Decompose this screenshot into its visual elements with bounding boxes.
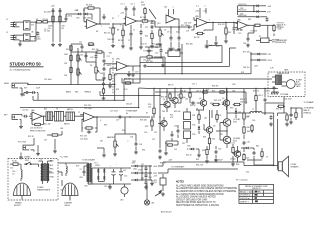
wire psu rails xyxy=(88,168,131,184)
node nA xyxy=(99,23,100,24)
diode D12 xyxy=(255,16,260,19)
node pr7 xyxy=(255,88,256,89)
svg-text:T1-2 GRN: T1-2 GRN xyxy=(60,157,68,159)
svg-text:SEND: SEND xyxy=(4,83,10,85)
wire J4 w2 xyxy=(20,119,22,124)
resistor R28 xyxy=(151,118,153,128)
svg-text:C37: C37 xyxy=(154,132,157,134)
svg-text:CR4: CR4 xyxy=(84,186,88,188)
wire pa feed H xyxy=(139,88,150,108)
svg-text:C67 .1: C67 .1 xyxy=(192,84,197,86)
capacitor Crow2 xyxy=(145,181,148,185)
svg-text:CR1: CR1 xyxy=(192,115,195,117)
wire C29 w xyxy=(135,134,137,150)
svg-text:R45: R45 xyxy=(256,146,259,148)
capacitor C20b xyxy=(148,49,151,53)
relay K1 xyxy=(256,38,272,43)
wire d15 w xyxy=(187,149,199,153)
wire rows g2 xyxy=(147,180,152,196)
svg-text:C30: C30 xyxy=(144,132,147,134)
resistor R16 xyxy=(109,73,111,81)
jack J5 foot xyxy=(23,145,31,150)
svg-text:1: 1 xyxy=(143,24,144,26)
wire pwrB xyxy=(126,12,134,16)
svg-text:(SHIELD): (SHIELD) xyxy=(304,113,312,115)
ground G36b xyxy=(150,182,154,186)
svg-text:R39: R39 xyxy=(202,150,205,152)
svg-text:C57 .1: C57 .1 xyxy=(196,91,201,93)
wire outF2 xyxy=(154,57,165,75)
resistor R61 xyxy=(243,153,245,161)
svg-text:1: 1 xyxy=(101,26,102,28)
resistor R16b xyxy=(102,88,104,95)
node nrs1 xyxy=(250,53,251,54)
wire row1 w xyxy=(131,173,152,180)
capacitor Crow0 xyxy=(145,167,148,171)
title underline xyxy=(10,66,44,68)
svg-text:SW: SW xyxy=(31,25,34,27)
svg-text:C24 47pF: C24 47pF xyxy=(84,108,93,110)
jack J3 send xyxy=(12,83,20,88)
wire rd w3 xyxy=(149,58,163,63)
ground G25 xyxy=(113,152,117,156)
wire fbF2 xyxy=(122,66,140,83)
svg-text:R21 10K: R21 10K xyxy=(44,124,51,126)
op-amp U5A xyxy=(166,9,179,23)
svg-text:C27 10uF: C27 10uF xyxy=(110,111,119,113)
svg-text:C27: C27 xyxy=(116,120,119,122)
resistor R86 xyxy=(251,125,253,132)
wire fbH xyxy=(82,117,97,132)
svg-text:220: 220 xyxy=(174,149,177,151)
svg-text:R6: R6 xyxy=(96,31,98,33)
wire vC3 xyxy=(233,23,235,35)
svg-text:Q10: Q10 xyxy=(157,23,160,25)
svg-text:SUB PHASER O/L PATENT NO. 4,30: SUB PHASER O/L PATENT NO. 4,302,691 xyxy=(176,204,220,207)
svg-text:ALL RESISTORS ARE 1/4W UNLESS: ALL RESISTORS ARE 1/4W UNLESS NOTED OTHE… xyxy=(176,187,237,190)
svg-text:R10: R10 xyxy=(228,32,231,34)
svg-text:R9 22K: R9 22K xyxy=(194,37,201,39)
svg-text:R47: R47 xyxy=(165,143,168,145)
svg-text:R18 47K: R18 47K xyxy=(124,79,132,81)
svg-text:C4 47p: C4 47p xyxy=(67,15,73,17)
svg-text:5: 5 xyxy=(196,27,197,29)
wire R30 w xyxy=(153,89,155,119)
wire lr w3 xyxy=(254,148,262,165)
wire outA xyxy=(100,23,110,25)
wire vcol2 xyxy=(59,8,61,42)
svg-text:R59: R59 xyxy=(76,166,79,168)
regulator VR1 xyxy=(121,184,128,197)
resistor R83 xyxy=(198,114,200,121)
node nH xyxy=(96,116,97,117)
svg-text:BASS: BASS xyxy=(66,91,72,94)
diode Drow0 xyxy=(133,165,139,168)
node nbusH xyxy=(138,107,139,108)
wire to stage1 xyxy=(48,21,53,23)
ground G37 xyxy=(161,192,165,196)
wire row0 w xyxy=(131,166,152,173)
ground G32 xyxy=(269,122,273,126)
svg-text:J9: J9 xyxy=(266,157,268,159)
resistor R77 xyxy=(295,112,297,119)
svg-text:Q3: Q3 xyxy=(150,121,152,123)
svg-text:T1 SECONDARY: T1 SECONDARY xyxy=(82,159,96,162)
svg-text:R48 100: R48 100 xyxy=(247,131,253,133)
jack switch box B1 xyxy=(24,21,31,30)
diode Drow2 xyxy=(133,179,139,182)
wire outC xyxy=(208,22,238,24)
svg-text:CR2: CR2 xyxy=(83,18,87,20)
ground G7 xyxy=(111,44,115,48)
capacitor C32 xyxy=(191,102,195,105)
diode D14 xyxy=(256,59,261,62)
svg-text:R75 10K: R75 10K xyxy=(243,52,250,54)
wire p2 w xyxy=(62,180,70,201)
ground G15 xyxy=(214,41,218,45)
capacitor C13 xyxy=(25,91,29,94)
node pr3 xyxy=(243,91,244,92)
node nbusG xyxy=(123,100,124,101)
svg-text:R53: R53 xyxy=(122,130,125,132)
wire r81 w xyxy=(178,89,181,104)
wire out w2 xyxy=(262,112,274,114)
svg-text:Q6: Q6 xyxy=(213,126,215,128)
wire fbC xyxy=(194,17,213,31)
op-amp U3A xyxy=(236,21,250,29)
wire P5 w xyxy=(114,134,116,152)
ground G16 xyxy=(224,39,228,43)
svg-text:.022: .022 xyxy=(175,51,178,53)
wire input2 xyxy=(20,22,36,42)
svg-text:R4: R4 xyxy=(62,28,64,30)
svg-text:CR8: CR8 xyxy=(232,84,235,86)
ground G19 xyxy=(102,76,106,80)
svg-text:R17 10K: R17 10K xyxy=(146,61,154,63)
wire r36b xyxy=(243,147,245,152)
node pa out node xyxy=(226,130,227,131)
speaker SP1 xyxy=(278,156,288,176)
wire pa rail 2 xyxy=(155,91,246,93)
svg-text:C66: C66 xyxy=(162,111,165,113)
svg-text:SW1: SW1 xyxy=(25,160,29,162)
svg-text:C58: C58 xyxy=(232,91,235,93)
resistor R82 xyxy=(189,92,191,99)
wire rows gnd xyxy=(145,186,147,189)
ground G42 xyxy=(102,96,106,100)
node nv a3 xyxy=(141,179,142,180)
op-amp U4A xyxy=(30,112,44,121)
wire lr w2 xyxy=(241,148,262,160)
potentiometer P3 mid xyxy=(77,67,82,77)
node pa in xyxy=(159,116,160,117)
svg-text:C8 47p: C8 47p xyxy=(150,23,156,25)
capacitor C6 xyxy=(133,6,136,12)
table mark 4 xyxy=(255,200,258,202)
wire J3 w3 xyxy=(24,93,33,101)
wire inF2 xyxy=(109,82,111,84)
ground G39 xyxy=(161,63,165,67)
op-amp U1B xyxy=(124,17,139,26)
svg-text:R54: R54 xyxy=(142,150,145,152)
reverb transformer T2 xyxy=(272,75,282,85)
resistor R4 xyxy=(59,14,61,24)
svg-text:R19: R19 xyxy=(116,89,119,91)
wire J3 w xyxy=(20,83,29,92)
capacitor C55 xyxy=(290,113,293,117)
wire potwire xyxy=(155,27,166,42)
resistor R38 xyxy=(206,148,208,156)
svg-text:R64 2.2K: R64 2.2K xyxy=(196,165,204,167)
wire spk join xyxy=(262,164,274,166)
svg-text:C59 .1: C59 .1 xyxy=(265,91,270,93)
svg-text:C6 .1: C6 .1 xyxy=(131,4,135,6)
resistor R40 xyxy=(286,113,288,121)
wire rail12 link xyxy=(238,6,254,15)
svg-text:C5 .1: C5 .1 xyxy=(121,4,125,6)
capacitor C11 xyxy=(186,26,192,29)
wire fbA xyxy=(84,8,100,24)
node nsig xyxy=(52,21,53,22)
svg-text:REV-05 ⚡ AUTO ENTER: REV-05 ⚡ AUTO ENTER xyxy=(240,191,261,194)
svg-text:C23 47p R22 1K: C23 47p R22 1K xyxy=(30,128,43,130)
capacitor C15b xyxy=(81,45,84,49)
svg-text:C20 4.7: C20 4.7 xyxy=(141,44,147,46)
svg-text:RETURN: RETURN xyxy=(277,27,285,29)
transformer T1 secondary winding xyxy=(87,163,92,183)
resistor R1 xyxy=(36,21,43,23)
svg-text:R61 470: R61 470 xyxy=(104,33,110,35)
svg-text:R5 47K: R5 47K xyxy=(86,5,93,7)
wire r84 w xyxy=(216,110,218,123)
wire hb30 xyxy=(166,26,186,28)
wire mid link xyxy=(115,117,136,134)
svg-text:.022: .022 xyxy=(90,57,93,59)
svg-text:CR12: CR12 xyxy=(133,168,137,170)
svg-text:CR4-7: CR4-7 xyxy=(95,165,100,167)
resistor R72 xyxy=(273,24,275,32)
wire send bus A xyxy=(28,84,115,86)
svg-text:C3: C3 xyxy=(80,169,82,171)
resistor R8c xyxy=(151,32,153,39)
fuse F1 xyxy=(10,163,21,166)
ground G40 xyxy=(127,73,131,77)
svg-text:.0022: .0022 xyxy=(107,65,111,67)
svg-text:R52 10: R52 10 xyxy=(186,155,192,157)
wire q6 w xyxy=(204,110,210,150)
capacitor C12 xyxy=(233,26,236,32)
svg-text:R12: R12 xyxy=(66,49,69,51)
resistor R9 xyxy=(196,32,205,34)
transistor Q9 xyxy=(233,151,241,157)
svg-text:C31: C31 xyxy=(185,99,188,101)
svg-text:R26: R26 xyxy=(104,125,107,127)
ground G14 xyxy=(205,44,209,48)
ground G24 xyxy=(53,149,57,153)
wire g27w xyxy=(97,148,104,153)
node pr8 xyxy=(264,88,265,89)
node nH3 xyxy=(151,116,152,117)
jack J2 prongs xyxy=(11,36,16,40)
svg-text:TO PREAMP: TO PREAMP xyxy=(304,101,315,104)
diode D16 xyxy=(244,147,249,150)
svg-text:TREBLE: TREBLE xyxy=(84,92,92,94)
svg-text:R28 10K: R28 10K xyxy=(140,120,148,122)
ground G36 xyxy=(144,185,148,189)
svg-text:C26 100p: C26 100p xyxy=(80,139,88,141)
transformer X2 xyxy=(55,111,64,121)
wire inC xyxy=(191,25,196,30)
svg-text:SPEAKER: SPEAKER xyxy=(291,166,300,169)
wire pa left edge xyxy=(159,89,161,118)
svg-text:R95 1K: R95 1K xyxy=(168,85,174,87)
capacitor C19 xyxy=(132,73,135,77)
AC plug P1 xyxy=(14,183,31,200)
svg-text:C63 .1: C63 .1 xyxy=(258,95,263,97)
svg-text:C72: C72 xyxy=(141,164,144,166)
resistor R45b xyxy=(255,94,257,102)
inductor L2 xyxy=(66,166,67,173)
svg-text:C7: C7 xyxy=(133,30,135,32)
wire pa rail xyxy=(150,88,278,90)
table mark 1 xyxy=(255,191,257,193)
svg-text:POWER AMP: POWER AMP xyxy=(126,110,138,113)
wire tone row w xyxy=(71,44,82,52)
svg-text:Q2: Q2 xyxy=(177,95,179,97)
svg-text:PAN J8: PAN J8 xyxy=(304,109,310,112)
svg-text:R49: R49 xyxy=(206,90,209,92)
ground G12 xyxy=(169,47,173,51)
svg-text:REV-05 FOR PROD SER NO 03 TO 7: REV-05 FOR PROD SER NO 03 TO 70 xyxy=(176,202,216,204)
lamp DS2 xyxy=(144,196,149,205)
wire vC2 xyxy=(225,23,227,40)
resistor R12 xyxy=(70,45,72,52)
svg-text:R42 0.22: R42 0.22 xyxy=(228,143,235,145)
wire q4 w xyxy=(203,89,205,111)
node nbusI xyxy=(138,95,139,96)
ground G26 xyxy=(134,150,138,154)
svg-text:D4: D4 xyxy=(196,109,198,111)
svg-text:.01: .01 xyxy=(12,173,14,175)
wire cc xyxy=(171,27,179,47)
wire fbG xyxy=(32,116,44,124)
capacitor C17 xyxy=(103,59,106,63)
wire row vert b xyxy=(149,166,151,180)
inductor LF1 xyxy=(21,170,22,179)
ic box U6 xyxy=(165,50,183,57)
pointer line xyxy=(149,9,156,19)
resistor R2 xyxy=(42,21,49,23)
svg-text:R12 470K: R12 470K xyxy=(181,25,190,27)
capacitor C39 xyxy=(270,115,273,120)
transistor Q5 xyxy=(222,100,230,106)
capacitor C3 xyxy=(59,8,62,14)
wire pa vert a xyxy=(245,92,247,104)
svg-text:CR6: CR6 xyxy=(132,163,136,165)
node nv a2 xyxy=(141,172,142,173)
resistor R10 xyxy=(225,26,227,36)
node nrow0 xyxy=(145,165,146,166)
bias diode stack CR1-3 xyxy=(184,108,191,143)
wire r35 w xyxy=(243,89,245,126)
svg-text:C46: C46 xyxy=(243,43,246,45)
svg-text:R69: R69 xyxy=(248,19,251,21)
svg-text:ALL CAPACITORS IN MICROFARADS: ALL CAPACITORS IN MICROFARADS NOTED xyxy=(176,193,224,196)
wire vA3 xyxy=(112,24,114,43)
svg-text:CR1: CR1 xyxy=(76,18,80,20)
inductor L1 xyxy=(250,112,262,114)
capacitor C28 xyxy=(118,116,123,119)
node nA2 xyxy=(112,23,113,24)
capacitor C25 xyxy=(87,131,92,134)
wire sec w2 xyxy=(58,172,66,176)
wire reverb bus G xyxy=(124,79,265,100)
svg-text:CHCK BY ■□: CHCK BY ■□ xyxy=(240,197,251,200)
svg-text:OPTIONAL: OPTIONAL xyxy=(280,93,289,96)
diode D15 xyxy=(189,148,195,151)
wire rd w2 xyxy=(149,44,161,58)
capacitor C46 xyxy=(247,36,250,42)
wire J4 w xyxy=(20,115,23,117)
node n out xyxy=(249,112,250,113)
svg-text:CR3: CR3 xyxy=(192,134,195,136)
svg-text:J2: J2 xyxy=(6,32,8,34)
dashed partition xyxy=(112,58,114,94)
transistor Q6 xyxy=(205,127,213,133)
wire rail3 xyxy=(238,16,268,18)
svg-text:10uF: 10uF xyxy=(36,88,40,90)
wire J5 w xyxy=(31,138,35,145)
svg-text:C47: C47 xyxy=(44,140,47,142)
capacitor C34 xyxy=(177,129,180,134)
resistor R15 xyxy=(96,51,104,53)
wire out w3 xyxy=(265,113,287,115)
node pr6 xyxy=(153,88,154,89)
svg-text:R62: R62 xyxy=(109,53,112,55)
node nbusF2 xyxy=(114,100,115,101)
svg-text:NOTES: NOTES xyxy=(176,182,184,184)
node spk dot xyxy=(273,165,274,166)
wire c34 w xyxy=(177,125,179,138)
svg-text:R94: R94 xyxy=(210,103,213,105)
svg-text:R6 6.8K: R6 6.8K xyxy=(108,39,116,41)
svg-text:R36: R36 xyxy=(247,127,250,129)
wire return bus I xyxy=(100,91,160,96)
svg-text:SW5 A: SW5 A xyxy=(65,204,71,207)
svg-text:R56 1K: R56 1K xyxy=(180,91,187,93)
node nC2 xyxy=(225,22,226,23)
svg-text:R3 220K: R3 220K xyxy=(34,39,42,41)
capacitor C10 xyxy=(178,35,181,41)
node nv b1 xyxy=(149,165,150,166)
resistor R18 xyxy=(124,82,131,84)
svg-text:C52: C52 xyxy=(123,170,126,172)
capacitor C63 xyxy=(264,98,267,102)
transistor Q8 xyxy=(222,136,231,144)
reverb unit dashed box xyxy=(268,72,305,97)
svg-text:C17: C17 xyxy=(107,56,110,58)
svg-text:.022: .022 xyxy=(176,32,180,34)
capacitor C21 xyxy=(143,65,147,68)
resistor R23 xyxy=(51,134,60,136)
node npa2 xyxy=(189,88,190,89)
wire spk top w xyxy=(244,162,250,166)
wire outB xyxy=(137,20,142,22)
connector CN1 xyxy=(160,174,166,189)
svg-text:C61: C61 xyxy=(246,172,249,174)
svg-text:R13 47K: R13 47K xyxy=(218,24,225,26)
resistor R85 xyxy=(167,144,174,146)
